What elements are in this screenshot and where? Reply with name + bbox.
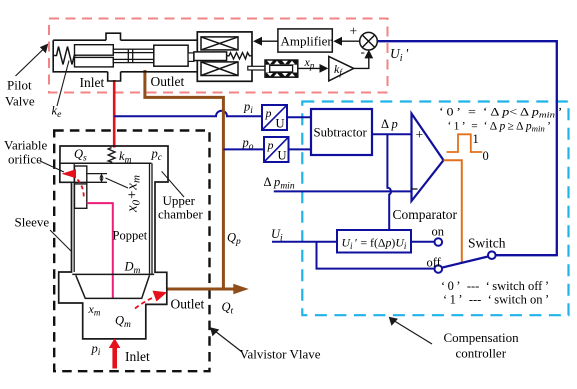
- label k_e with pointer: [52, 61, 70, 121]
- svg-text:Qt: Qt: [222, 300, 234, 317]
- pilot valve body: [53, 40, 197, 72]
- pilot spool right land: [154, 45, 188, 66]
- svg-text:Subtractor: Subtractor: [314, 126, 368, 140]
- pointer line from gap to x0+xm label: [106, 178, 129, 188]
- wire: orange comparator output down to switch: [444, 160, 462, 262]
- svg-text:Amplifier: Amplifier: [281, 33, 333, 48]
- svg-text:Δ p: Δ p: [381, 117, 398, 131]
- svg-text:Δ pmin: Δ pmin: [264, 175, 295, 192]
- armature rod: [194, 52, 227, 61]
- svg-text:xm: xm: [88, 302, 101, 318]
- svg-text:Switch: Switch: [468, 236, 506, 251]
- svg-text:pi: pi: [243, 100, 253, 117]
- svg-text:Dm: Dm: [124, 260, 141, 277]
- red dashed flow Q_m curve with arrow: [135, 296, 158, 309]
- label Variable orifice with pointer: [4, 138, 64, 173]
- svg-text:Poppet: Poppet: [113, 229, 148, 243]
- svg-text:Ui ': Ui ': [390, 46, 409, 64]
- wire: blue p_o sense line: [223, 148, 264, 150]
- arrowhead: into k_f: [320, 64, 329, 73]
- svg-text:‘ 1 ’ = ‘ Δ p ≥ Δ pmin ’: ‘ 1 ’ = ‘ Δ p ≥ Δ pmin ’: [448, 121, 552, 134]
- label minus at comparator: [411, 188, 418, 190]
- svg-text:U: U: [276, 117, 285, 131]
- transducer p/U box 1: [262, 105, 287, 131]
- switch off contact circle: [435, 265, 443, 273]
- sleeve inner wall right pair: [150, 163, 153, 274]
- svg-text:Valvistor Vlave: Valvistor Vlave: [240, 347, 321, 362]
- transducer p/U box 2: [264, 137, 289, 163]
- pilot valve boundary box (pink dashed): [49, 19, 388, 93]
- compensation controller boundary box (cyan dashed): [302, 102, 568, 316]
- pilot spool rods between lands: [113, 49, 154, 62]
- svg-text:p: p: [265, 106, 272, 120]
- valvistor valve boundary box (black dashed): [54, 131, 209, 372]
- orange step signal symbol: [447, 134, 483, 152]
- pilot spool left land: [75, 45, 114, 67]
- wire: blue p_i sense line with hop over brown: [114, 111, 262, 116]
- svg-text:pi: pi: [91, 342, 101, 359]
- wire: amplifier to torque motor: [262, 40, 278, 42]
- svg-text:+: +: [416, 127, 424, 142]
- svg-text:‘ 0 ’ = ‘ Δ p< Δ pmin ’: ‘ 0 ’ = ‘ Δ p< Δ pmin ’: [439, 107, 563, 120]
- amplifier box: [278, 29, 332, 52]
- torque motor body: [197, 32, 252, 81]
- red dashed orifice flow curve: [78, 180, 84, 198]
- svg-text:pc: pc: [151, 147, 163, 164]
- label Compensation controller with arrow pointer: [389, 317, 519, 361]
- label Upper chamber with pointer: [158, 171, 203, 221]
- arrowhead: Q_m red: [153, 291, 168, 302]
- wire: blue feedback U_i' from switch to summing junction: [377, 41, 556, 255]
- svg-text:p: p: [267, 138, 274, 152]
- svg-text:Comparator: Comparator: [393, 207, 458, 222]
- wire: function box to on contact: [411, 241, 435, 243]
- svg-text:Outlet: Outlet: [171, 297, 205, 312]
- svg-text:Pilot: Pilot: [7, 78, 32, 93]
- arrowhead: into torque motor: [253, 37, 262, 46]
- wire: p/U 2 to subtractor: [289, 148, 312, 150]
- svg-text:Inlet: Inlet: [80, 75, 105, 90]
- poppet shoulder line D_m: [72, 273, 154, 275]
- wire: delta p branch down to function box with hop: [387, 134, 391, 230]
- svg-text:Qs: Qs: [74, 147, 87, 164]
- wire: U_i input line: [272, 241, 337, 243]
- torque motor bottom coil: [201, 62, 238, 76]
- torque motor spring: [227, 53, 252, 59]
- summing junction circle with X: [360, 32, 378, 50]
- svg-text:Qp: Qp: [227, 231, 241, 248]
- sleeve inner wall left: [73, 163, 75, 272]
- label Pilot Valve with arrow pointer: [5, 44, 48, 109]
- svg-text:‘ 1 ’ --- ‘ switch on ’: ‘ 1 ’ --- ‘ switch on ’: [443, 293, 549, 307]
- arrowhead: brown outlet flow Q_t: [233, 284, 249, 294]
- spring k_m: [108, 148, 115, 164]
- pilot valve top port stub: [106, 33, 121, 40]
- wire: U_i branch down to off contact: [317, 242, 435, 269]
- pilot spool rod to armature: [188, 53, 194, 62]
- svg-text:chamber: chamber: [158, 207, 203, 222]
- svg-text:U: U: [278, 149, 287, 163]
- svg-text:Valve: Valve: [5, 94, 35, 109]
- svg-text:1: 1: [473, 132, 479, 146]
- red inlet arrow bottom: [109, 338, 121, 368]
- switch pivot contact circle: [488, 251, 496, 259]
- svg-text:x0+xm: x0+xm: [125, 175, 143, 213]
- pink pilot flow path through poppet: [87, 203, 113, 298]
- svg-text:‘ 0 ’ --- ‘ switch off ’: ‘ 0 ’ --- ‘ switch off ’: [441, 279, 549, 293]
- svg-text:Variable: Variable: [4, 138, 48, 153]
- svg-text:controller: controller: [456, 346, 507, 361]
- spring k_e: [53, 47, 76, 65]
- gain block k_f triangle: [329, 56, 354, 81]
- main valve chamber floor line: [60, 162, 152, 164]
- wire: k_f to summing junction: [354, 52, 369, 69]
- wire: brown pilot outlet line down and across to Q_p: [145, 70, 224, 289]
- svg-text:+: +: [350, 24, 358, 39]
- svg-text:Sleeve: Sleeve: [15, 215, 50, 230]
- wire: delta p_min input: [274, 190, 416, 192]
- wire: brown outlet line with arrow Q_t: [167, 288, 235, 291]
- comparator triangle: [412, 114, 444, 202]
- label Sleeve with pointer: [15, 215, 73, 253]
- svg-text:on: on: [432, 225, 445, 239]
- pilot valve inlet port stub: [108, 72, 121, 81]
- main valve outer body: [59, 146, 168, 339]
- svg-text:Outlet: Outlet: [151, 74, 185, 89]
- poppet top edge lines: [60, 174, 107, 183]
- svg-text:-: -: [361, 44, 365, 59]
- red orifice arrow (solid): [62, 169, 77, 178]
- svg-text:Qm: Qm: [115, 314, 131, 331]
- wire: p/U 1 to subtractor: [287, 116, 311, 118]
- arrowhead: into summing junction: [364, 50, 373, 59]
- svg-text:Compensation: Compensation: [444, 330, 520, 345]
- arrowhead: into amplifier: [333, 37, 342, 46]
- svg-text:orifice: orifice: [8, 152, 42, 167]
- wire: x_p signal to gain k_f: [298, 67, 321, 69]
- torque motor top coil: [201, 37, 238, 50]
- position sensor x_p (LVDT): [265, 60, 298, 77]
- gap arrow x0+xm (double headed): [99, 173, 103, 182]
- svg-text:xp: xp: [304, 55, 315, 71]
- variable orifice slot: [75, 166, 87, 208]
- svg-text:ke: ke: [52, 104, 62, 121]
- sensor drive rod: [248, 66, 266, 70]
- subtractor box: [311, 109, 372, 155]
- svg-text:off: off: [427, 256, 442, 270]
- wire: red pilot inlet line: [113, 80, 116, 148]
- wire: summing junction to amplifier: [341, 40, 360, 42]
- svg-text:Inlet: Inlet: [125, 349, 150, 364]
- switch on contact circle: [435, 238, 443, 246]
- function box U_i' = f(dp)U_i: [337, 230, 411, 253]
- switch lever: [442, 257, 488, 268]
- label Valvistor Vlave with arrow pointer: [210, 327, 321, 361]
- wire: delta p to comparator plus input: [372, 133, 412, 135]
- poppet nose trapezoid: [76, 275, 150, 298]
- svg-text:0: 0: [483, 149, 489, 163]
